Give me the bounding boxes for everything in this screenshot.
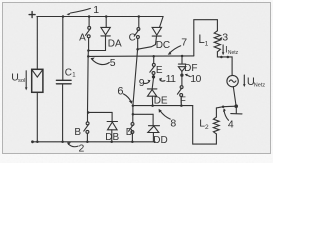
junction node 6 on rail 8 bbox=[132, 104, 135, 107]
wire to L2 top bbox=[216, 106, 236, 108]
junction node INetz tap bbox=[227, 56, 230, 59]
switch D bbox=[129, 114, 134, 142]
svg-text:A: A bbox=[79, 32, 86, 43]
label 11 arrow bbox=[160, 80, 165, 81]
junction node UNetz bottom / ground bbox=[234, 104, 238, 108]
svg-text:7: 7 bbox=[181, 37, 187, 49]
wire B/DB top rail bbox=[88, 111, 113, 113]
junction node DC- / diode DB bottom bbox=[110, 141, 113, 144]
svg-text:11: 11 bbox=[166, 73, 177, 85]
label Usol arrowhead bbox=[25, 87, 28, 90]
svg-text:DE: DE bbox=[154, 95, 168, 106]
label INetz arrowhead bbox=[222, 52, 225, 55]
label 2 arrowhead bbox=[67, 142, 71, 145]
label INetz arrow bbox=[222, 45, 224, 54]
label UNetz arrowhead bbox=[243, 84, 246, 87]
junction node DC+ / diode DA top bbox=[105, 15, 108, 18]
svg-text:DC: DC bbox=[156, 40, 170, 51]
svg-text:DB: DB bbox=[105, 132, 119, 143]
svg-text:sol: sol bbox=[18, 78, 25, 84]
label 11 arrowhead bbox=[159, 78, 162, 81]
junction node switch E top bbox=[152, 55, 155, 58]
svg-text:10: 10 bbox=[190, 73, 201, 85]
label 3 arrow bbox=[220, 37, 222, 40]
junction node DC+ / switch A top bbox=[88, 15, 91, 18]
junction node A-DA bbox=[87, 49, 90, 52]
diode DE bbox=[147, 78, 157, 106]
wire top DC+ rail bbox=[37, 16, 163, 18]
wire L1 to grid bbox=[217, 52, 232, 76]
svg-text:B: B bbox=[74, 127, 81, 138]
wire L2 loop bottom bbox=[193, 106, 217, 145]
junction node 5 on rail 7 bbox=[87, 55, 90, 58]
junction node DC+ / C1 top bbox=[62, 15, 65, 18]
wire L1 loop top bbox=[194, 20, 218, 56]
svg-text:1: 1 bbox=[93, 4, 99, 16]
label 9 arrowhead bbox=[148, 80, 151, 83]
svg-text:C: C bbox=[129, 33, 136, 44]
svg-text:8: 8 bbox=[170, 118, 176, 130]
junction node L2 top bbox=[222, 105, 225, 108]
label 10 arrow bbox=[186, 75, 190, 77]
label Usol arrow bbox=[25, 71, 27, 89]
label UNetz arrow bbox=[243, 75, 245, 86]
label 8 arrow bbox=[160, 111, 170, 120]
wire L2 top stub bbox=[215, 108, 217, 117]
label 7 arrowhead bbox=[168, 51, 172, 54]
label 10 arrowhead bbox=[185, 74, 188, 77]
label 9 arrow bbox=[144, 82, 150, 84]
terminal DC- left end bbox=[31, 140, 34, 143]
junction node switch B top bbox=[87, 111, 90, 114]
wire node 6 vertical (leg C/D midpoint) bbox=[133, 49, 138, 105]
svg-text:Netz: Netz bbox=[254, 82, 266, 88]
switch C bbox=[134, 17, 140, 50]
diode DD bbox=[148, 114, 160, 142]
junction node 9 E-DE bbox=[152, 75, 155, 78]
label 1 arrowhead bbox=[67, 13, 71, 16]
wire rail node 8 bbox=[133, 105, 193, 107]
switch B bbox=[84, 112, 89, 141]
junction node switch F bottom bbox=[180, 104, 183, 107]
svg-text:Netz: Netz bbox=[228, 50, 239, 56]
label 5 arrowhead bbox=[91, 58, 95, 61]
label 1 arrow bbox=[71, 8, 91, 13]
label 8 arrowhead bbox=[159, 109, 162, 113]
svg-text:3: 3 bbox=[222, 32, 228, 44]
ground bbox=[231, 106, 242, 114]
border frame bbox=[3, 3, 271, 154]
switch A bbox=[86, 17, 91, 50]
source UNetz bbox=[227, 75, 238, 86]
svg-text:E: E bbox=[156, 65, 163, 76]
svg-text:DD: DD bbox=[153, 135, 167, 146]
label 7 arrow bbox=[169, 46, 180, 54]
wire node 5 vertical (leg A/B midpoint) bbox=[87, 51, 90, 113]
svg-text:2: 2 bbox=[205, 124, 209, 131]
junction node DC- / solar bottom bbox=[36, 141, 39, 144]
junction node DC+ / switch C top bbox=[138, 15, 141, 18]
svg-text:2: 2 bbox=[79, 143, 85, 155]
solar generator Usol bbox=[32, 69, 43, 92]
label 2 arrow bbox=[68, 144, 78, 147]
inductor L1 bbox=[214, 31, 220, 52]
label 6 arrow bbox=[123, 94, 131, 102]
junction node DC- / switch D bottom bbox=[131, 141, 134, 144]
wire D/DD top rail bbox=[133, 106, 153, 115]
wire rail node 7 bbox=[88, 55, 193, 58]
svg-text:F: F bbox=[180, 96, 186, 107]
diode DC bbox=[138, 17, 163, 50]
svg-text:9: 9 bbox=[139, 77, 145, 89]
label 5 arrow bbox=[92, 59, 110, 64]
svg-text:DA: DA bbox=[108, 38, 122, 49]
junction node C-DC bbox=[136, 48, 139, 51]
junction node 10 DF-F bbox=[180, 74, 183, 77]
junction node DC- / switch B bottom bbox=[86, 141, 89, 144]
node + (positive DC rail marker) bbox=[29, 12, 35, 18]
label 6 arrowhead bbox=[129, 101, 133, 104]
label 3 arrowhead bbox=[219, 37, 222, 39]
switch F bbox=[177, 76, 183, 105]
label 4 arrow bbox=[224, 110, 229, 121]
svg-text:D: D bbox=[126, 127, 133, 138]
junction node diode DF top bbox=[181, 55, 184, 58]
wire UNetz bottom bbox=[233, 87, 236, 107]
diode DF bbox=[178, 56, 185, 74]
svg-text:C: C bbox=[65, 67, 72, 78]
svg-text:4: 4 bbox=[228, 119, 234, 131]
label 4 arrowhead bbox=[223, 108, 226, 112]
svg-text:6: 6 bbox=[117, 85, 123, 97]
svg-text:1: 1 bbox=[205, 41, 209, 48]
inductor L2 bbox=[213, 117, 219, 134]
junction node diode DE bottom bbox=[151, 104, 154, 107]
switch E bbox=[150, 56, 155, 76]
junction node switch D top bbox=[132, 113, 135, 116]
junction node L1 bottom bbox=[220, 56, 223, 59]
junction node DC- / C1 bottom bbox=[61, 141, 64, 144]
wire solar column top bbox=[36, 17, 38, 70]
svg-text:5: 5 bbox=[110, 57, 116, 69]
wire bottom DC- rail bbox=[33, 141, 156, 143]
capacitor C1 bbox=[56, 17, 71, 142]
wire solar column bottom bbox=[36, 92, 38, 142]
diode DB bbox=[107, 112, 117, 141]
diode DA bbox=[88, 17, 110, 51]
